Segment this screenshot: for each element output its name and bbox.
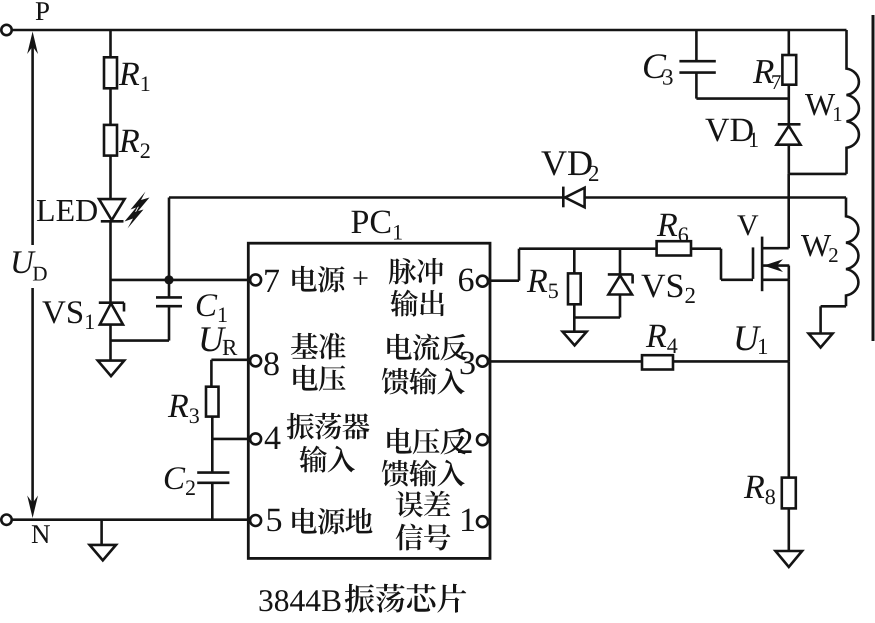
wire C3 to drain rail (696, 73, 788, 99)
pin 8 circle (250, 355, 261, 366)
inductor winding W2 (846, 198, 858, 307)
pin number 8 (264, 352, 278, 375)
label N (32, 525, 50, 543)
label R2 (119, 130, 150, 158)
wire LED cathode to pin 7 (111, 279, 251, 282)
wire source node to R8 (787, 361, 790, 477)
label V (737, 215, 758, 235)
node junction C1 (164, 275, 173, 284)
resistor R6 (657, 241, 691, 255)
wire top rail P (12, 29, 847, 32)
wire VS2 to gnd rail (574, 295, 620, 318)
pin number 4 (265, 427, 281, 449)
label R5 (527, 270, 558, 299)
wire R3 to pin 4 (211, 417, 250, 439)
label P (36, 2, 49, 20)
wire VS2 tap (619, 249, 622, 275)
wire P rail to R1 (109, 30, 112, 57)
pin number 2 (458, 431, 472, 454)
label R1 (119, 63, 150, 91)
pin 2 label dianyafan (387, 428, 467, 455)
wire C2 to bottom rail (211, 483, 214, 520)
label UR (201, 327, 237, 355)
label R3 (168, 395, 199, 424)
ground under R5 (563, 318, 587, 346)
pin 6 label shuchu (390, 290, 444, 317)
wire pin 6 to gate rail (489, 249, 656, 281)
label LED (37, 200, 97, 221)
resistor R3 (206, 387, 219, 417)
diode VD2 (563, 187, 584, 208)
pin 1 circle (477, 516, 488, 527)
voltage arrow U_D (27, 32, 38, 519)
wire R1 to R2 (109, 88, 112, 125)
wire R8 to ground (787, 508, 790, 551)
pin 2 label kuishuru2 (382, 460, 465, 487)
pin number 6 (459, 269, 474, 292)
label W1 (805, 94, 841, 121)
wire LED to VS1 (109, 221, 112, 302)
wire R7 to VD1 (787, 85, 790, 125)
label VD1 (705, 119, 757, 147)
pin 1 label xinhao (396, 524, 451, 551)
pin number 3 (461, 352, 475, 375)
transistor V (MOSFET) (753, 237, 789, 292)
wire W2 to ground (821, 306, 846, 333)
transformer core (872, 15, 875, 341)
ground under R8 (776, 551, 803, 567)
wire VD1 to W1 junction (787, 145, 790, 174)
label VS1 (42, 301, 94, 329)
pin 3 circle (477, 356, 488, 367)
label VD2 (541, 151, 598, 181)
wire VS1 to ground (109, 325, 112, 361)
capacitor C2 (197, 473, 229, 483)
pin 1 label wucha (396, 491, 451, 518)
label VS2 (641, 275, 694, 304)
pin number 7 (265, 270, 279, 292)
label C2 (165, 467, 195, 495)
zener diode VS1 (99, 303, 124, 325)
pin 4 label shuru (299, 446, 355, 473)
diode VD1 (777, 124, 801, 144)
pin 4 circle (250, 433, 261, 444)
resistor R8 (782, 478, 796, 509)
wire top rail to R7 (787, 30, 790, 55)
wire pin 8 to R3 (211, 360, 250, 387)
label U1 (736, 326, 767, 354)
LED diode (99, 192, 150, 229)
pin 6 circle (477, 276, 488, 287)
wire R4 to source node (673, 360, 789, 363)
resistor R2 (104, 125, 117, 156)
pin 8 label jizhun (291, 333, 346, 360)
wire R5 tap (573, 249, 576, 274)
terminal P (1, 25, 11, 35)
inductor winding W1 (847, 30, 859, 174)
capacitor C1 (156, 297, 182, 306)
wire R5 to gnd rail (573, 304, 576, 317)
pin 7 circle (250, 274, 261, 285)
label R8 (744, 476, 775, 505)
wire R2 to LED (109, 156, 112, 200)
wire pin4 node to C2 (211, 439, 214, 473)
ground under W2 (809, 334, 833, 348)
ground on bottom rail (90, 520, 116, 561)
pin 2 circle (477, 434, 488, 445)
label W2 (801, 235, 838, 262)
caption 3844B (260, 584, 467, 613)
wire top rail to C3 (695, 30, 698, 61)
wire C1 to VS1 anode (111, 306, 170, 340)
wire junction to VD2 rail (169, 198, 846, 280)
pin 7 label dianyuan+ (292, 266, 367, 293)
pin number 5 (268, 509, 282, 532)
wire drain (787, 174, 790, 248)
resistor R5 (568, 273, 581, 304)
pin 3 label kuishuru (382, 368, 465, 395)
pin 5 circle (250, 515, 261, 526)
label C3 (644, 54, 673, 84)
wire W1 bottom (789, 173, 847, 176)
resistor R7 (782, 55, 796, 85)
zener diode VS2 (608, 274, 633, 294)
ground under VS1 (98, 361, 124, 377)
pin number 1 (462, 509, 474, 531)
wire bottom rail N (12, 518, 249, 521)
label R6 (657, 214, 688, 243)
terminal N (1, 515, 11, 525)
wire pin 3 to R4 (489, 360, 642, 363)
wire R6 to gate (691, 249, 753, 280)
pin 5 label dianyuandi (292, 508, 372, 535)
pin 8 label dianya (293, 365, 345, 392)
pin 6 label maichong (389, 258, 444, 285)
label R7 (753, 60, 781, 89)
wire junction to C1 (168, 280, 171, 298)
pin 3 label dianliufan (387, 334, 467, 361)
capacitor C3 (679, 61, 715, 72)
label U_D (13, 251, 47, 280)
resistor R4 (642, 355, 673, 369)
wire source down (787, 280, 790, 362)
op-chip PC1 box (248, 243, 490, 558)
resistor R1 (104, 57, 117, 88)
pin 4 label zhendangqi (287, 413, 370, 440)
label R4 (646, 325, 678, 353)
label C1 (197, 294, 227, 322)
label PC1 (352, 211, 402, 240)
